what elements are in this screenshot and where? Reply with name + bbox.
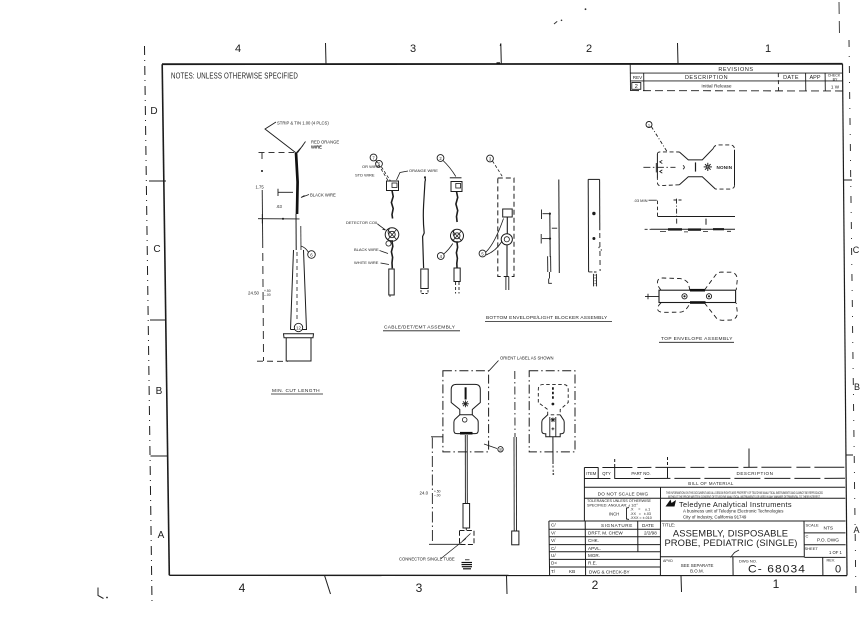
balloon 2 leader [443,161,456,177]
svg-text:CHK.: CHK. [588,538,599,543]
svg-text:B: B [156,386,163,397]
svg-text:2/2/98: 2/2/98 [644,531,657,536]
svg-text:T/: T/ [551,569,556,574]
zone numerals bottom [239,577,780,595]
orient leader [489,361,499,371]
detector knot 3 [451,229,464,242]
dim line mid [258,214,300,224]
svg-text:SIGNATURE: SIGNATURE [601,523,633,528]
balloon 1 [646,122,652,128]
svg-text:V/: V/ [551,538,556,543]
stub left [645,296,659,298]
cable left [465,435,467,504]
stray check mark [731,550,740,558]
thick seal bottom [690,301,706,304]
eyelet right [706,294,711,299]
assembly box left [443,371,489,452]
svg-text:C: C [153,244,160,255]
dim arrows [660,160,663,173]
svg-text:BOTTOM ENVELOPE/LIGHT BLOCKE: BOTTOM ENVELOPE/LIGHT BLOCKER ASSEMBLY [486,315,608,321]
svg-text:SCALE: SCALE [806,522,819,527]
zone tick top 4/3 [325,43,328,64]
svg-text:3: 3 [410,43,416,55]
balloon 4 [437,253,444,260]
wire A lower [506,245,508,277]
zone tick top 2/1 [677,43,680,64]
parts list header text [586,471,773,476]
signature block ruling [549,520,846,522]
fold dot right [552,403,555,406]
svg-text:BLACK WIRE: BLACK WIRE [310,192,336,197]
svg-text:.63: .63 [276,204,282,209]
bulb circle detail [462,418,467,423]
balloon 5 [376,160,383,167]
wire item3 upper [456,192,458,223]
detector knot A [501,234,512,245]
svg-text:–.00: –.00 [264,293,271,297]
probe top fold right (dashed) [538,384,568,414]
zone tick bottom 3/2 [506,575,509,594]
tail below envelope [506,277,509,291]
zone letters left [150,106,164,541]
bulb star right [551,418,556,423]
svg-text:REV.: REV. [827,559,836,563]
svg-text:BLACK WIRE: BLACK WIRE [354,247,379,252]
cable cone [291,250,308,330]
zone numerals top [235,43,771,55]
svg-text:2: 2 [592,578,599,592]
balloon 1 leader [651,127,667,152]
svg-text:ITEM: ITEM [586,471,597,476]
svg-text:0: 0 [835,564,841,576]
svg-text:A: A [158,530,165,541]
parts list column stubs [614,459,616,468]
svg-text:REVISIONS: REVISIONS [718,67,753,73]
svg-text:ORIENT LABEL AS SHOWN: ORIENT LABEL AS SHOWN [500,356,554,361]
bowtie top view dashed segments [657,145,734,189]
svg-text:DATE: DATE [642,523,654,528]
balloon 3 leader [493,161,504,178]
svg-text:24.0: 24.0 [420,491,429,496]
wire heavy body [296,153,298,215]
svg-text:DWG & CHECK-BY: DWG & CHECK-BY [589,569,630,574]
svg-text:CABLE/DET/EMT ASSEMBLY: CABLE/DET/EMT ASSEMBLY [384,325,456,331]
svg-text:APVD: APVD [663,559,673,563]
svg-text:NONIN: NONIN [717,165,733,170]
svg-text:1: 1 [765,43,771,55]
center cable item [514,371,517,531]
emitter block 1 [387,181,399,191]
blocker dot 1 [592,212,595,215]
wing lower left [658,303,690,313]
svg-text:SHEET: SHEET [805,546,819,551]
proprietary note lines [666,491,823,499]
svg-text:4: 4 [235,43,241,55]
signature block text [569,523,657,574]
detector knot 1 [385,228,399,246]
svg-text:1 OF 1: 1 OF 1 [829,550,842,555]
zone tick left C/B [150,319,167,321]
wire A upper [506,217,508,234]
svg-text:12: 12 [296,325,301,330]
svg-text:1.75: 1.75 [256,185,265,190]
svg-text:SEE SEPARATE: SEE SEPARATE [681,563,714,568]
dim .63 tick [278,189,293,196]
teledyne logo [666,500,677,507]
title block ruling [549,449,846,576]
svg-text:WITHOUT THE PRIOR WRITTEN CONS: WITHOUT THE PRIOR WRITTEN CONSENT OF TEL… [668,495,820,499]
side view top layer [658,216,736,218]
sheet edge dash-dot right [849,40,856,600]
scan speck bottom left [98,588,108,599]
thick seal top [690,289,705,292]
emitter block A [503,209,513,217]
svg-text:CONNECTOR SINGLE TUBE: CONNECTOR SINGLE TUBE [399,557,455,562]
cable right stub [552,437,554,472]
balloon leaders item1 [376,161,391,182]
svg-text:1: 1 [773,577,780,591]
dim extent vertical [261,153,263,361]
svg-text:C: C [806,534,809,539]
wing upper left [657,278,689,290]
svg-text:Initial Release: Initial Release [701,84,731,90]
svg-text:MGR.: MGR. [588,553,600,558]
inner border bottom [169,574,847,576]
sleeve item1 [389,269,394,297]
wing lower right [705,303,738,320]
connector [460,528,475,545]
svg-text:B.O.M.: B.O.M. [690,569,704,574]
cable dim [429,437,462,545]
svg-text:–.00: –.00 [434,493,441,497]
balloon 2 [437,155,444,162]
svg-text:D: D [150,106,157,117]
probe top fold [451,384,480,414]
svg-text:U/: U/ [551,553,556,558]
sleeve item2 [421,269,428,294]
fold bar [465,387,467,399]
sheet edge top-right dash [838,2,841,34]
revisions table text [633,67,841,90]
bulb slot right [550,417,556,437]
svg-text:DESCRIPTION: DESCRIPTION [737,471,774,476]
svg-text:ORANGE WIRE: ORANGE WIRE [409,168,438,173]
wire item1 lower [391,241,392,268]
scan speck top center [554,8,586,24]
speckles [598,247,602,251]
wire item2 [423,178,426,269]
svg-text:INCH: INCH [609,512,619,517]
bottom extension dashed [257,360,288,362]
svg-text:D<: D< [551,561,557,566]
item3 top tee [450,177,462,179]
tolerance brace [627,508,630,520]
zone tick right D/C [844,179,852,181]
fold bar right [552,387,554,399]
svg-text:City of Industry, Californi: City of Industry, California 91749 [683,515,747,520]
svg-text:OR WIRE: OR WIRE [362,164,380,169]
svg-text:APP: APP [809,75,820,81]
svg-text:.03 MIN: .03 MIN [634,198,648,203]
center cross tick [655,163,657,172]
bowtie top view solid segments [657,148,734,189]
svg-text:C/: C/ [551,523,556,528]
probe bulb [454,415,478,434]
signature column marks [551,523,557,574]
svg-text:B: B [854,382,860,392]
svg-text:TOP ENVELOPE ASSEMBLY: TOP ENVELOPE ASSEMBLY [661,336,733,342]
eyelet left [682,294,687,299]
svg-text:MIN. CUT LENGTH: MIN. CUT LENGTH [272,388,320,394]
balloon 5b leaders [486,219,504,256]
detector leader [378,224,386,230]
revisions table [630,64,843,91]
side view bottom layer [645,229,735,232]
waist bar [695,162,697,171]
svg-text:3: 3 [416,581,423,595]
svg-text:PROBE, PEDIATRIC (SINGLE): PROBE, PEDIATRIC (SINGLE) [664,537,797,548]
fold star [462,400,469,407]
side view extension lines [658,199,682,225]
probe bulb right [542,415,564,437]
balloon 6 [301,246,308,252]
svg-text:NOTES: UNLESS OTHERWISE SPE: NOTES: UNLESS OTHERWISE SPECIFIED [171,71,298,81]
zone letters right [853,245,860,535]
wire top hook [297,142,306,153]
svg-text:2: 2 [635,84,638,90]
orange wire leader [397,171,409,180]
svg-text:QTY: QTY [602,471,611,476]
svg-text:A business unit of Teledyn: A business unit of Teledyne Electronic T… [683,508,784,513]
wire item1 upper [391,191,393,219]
svg-text:DRFT. M. CHEW: DRFT. M. CHEW [588,531,623,536]
centerline [643,166,675,168]
bulb seal bar [460,432,473,435]
svg-text:V/: V/ [551,530,556,535]
balloon 12 on cone [294,323,302,331]
svg-text:REV: REV [633,75,643,80]
balloon 3 [487,155,494,162]
plus mark right [552,427,555,430]
connector flange [284,334,314,361]
svg-text:C- 68034: C- 68034 [748,563,806,575]
balloon 8 [484,444,497,449]
svg-text:BY: BY [833,77,838,81]
inner border top [162,63,843,65]
balloon 7 [370,154,377,161]
wire item3 lower [456,242,457,267]
emitter block 3 [451,182,462,192]
svg-text:NTS: NTS [824,525,834,531]
svg-text:1 W: 1 W [831,85,840,90]
wing upper right [705,272,738,290]
svg-text:STRIP & TIN 1.00 (4 PLCS): STRIP & TIN 1.00 (4 PLCS) [277,121,329,126]
sleeve item3 [454,268,460,294]
zone tick top 3/2 [500,44,503,65]
light blocker side view B [541,180,559,284]
right column ruling [803,521,805,557]
black wire leader [301,195,309,198]
svg-text:C/: C/ [551,546,556,551]
svg-text:WIRE: WIRE [311,144,322,149]
svg-text:STD WIRE: STD WIRE [355,173,375,178]
drawing title [664,527,797,548]
wire stub hatch [462,560,473,569]
zone tick bottom 4/3 [325,575,331,594]
star logo [704,163,712,171]
balloon 5b [479,250,486,257]
svg-text:C: C [853,245,860,255]
inner border right [843,64,848,576]
svg-text:4: 4 [239,581,246,595]
zone tick right B/A [846,454,854,456]
svg-text:.XXX = ±.010: .XXX = ±.010 [630,516,652,520]
tolerance block text [587,499,652,520]
assembly box right [529,371,575,452]
strip-tin leader [265,122,296,153]
inner border left [162,64,169,575]
svg-text:TOLERANCES UNLESS OTHERWISE: TOLERANCES UNLESS OTHERWISE [587,499,652,503]
waist notch [683,165,684,169]
svg-text:WHITE WIRE: WHITE WIRE [354,260,379,265]
zone tick left B/A [151,455,168,457]
svg-text:24.50: 24.50 [248,291,260,296]
envelope rect view [659,290,736,302]
svg-text:APVL.: APVL. [588,546,601,551]
svg-text:BILL OF MATERIAL: BILL OF MATERIAL [688,481,734,486]
svg-text:A: A [853,525,859,535]
svg-text:R.E.: R.E. [588,561,597,566]
light blocker side view C [588,179,600,286]
svg-text:DESCRIPTION: DESCRIPTION [685,75,728,81]
svg-text:P.O. DWG: P.O. DWG [817,538,839,544]
side view tick [705,219,707,225]
bottom envelope outline [498,178,514,277]
svg-text:DETECTOR COIL: DETECTOR COIL [346,220,379,225]
svg-text:DATE: DATE [783,75,799,81]
svg-text:DO NOT SCALE DWG: DO NOT SCALE DWG [598,492,649,497]
balloon 4 leader [444,244,453,255]
wire lower double [296,214,301,250]
blocker dot 2 [592,237,595,240]
svg-text:KB: KB [569,569,575,574]
cable sleeve [463,504,470,529]
svg-text:PART NO.: PART NO. [631,471,650,476]
sheet edge dash-dot left [145,46,153,602]
dim extension top dashed [259,151,295,153]
center cable sleeve [512,531,519,545]
zone tick left D/C [149,180,166,182]
zone tick bottom 2/1 [680,576,683,593]
svg-text:2: 2 [586,43,592,55]
